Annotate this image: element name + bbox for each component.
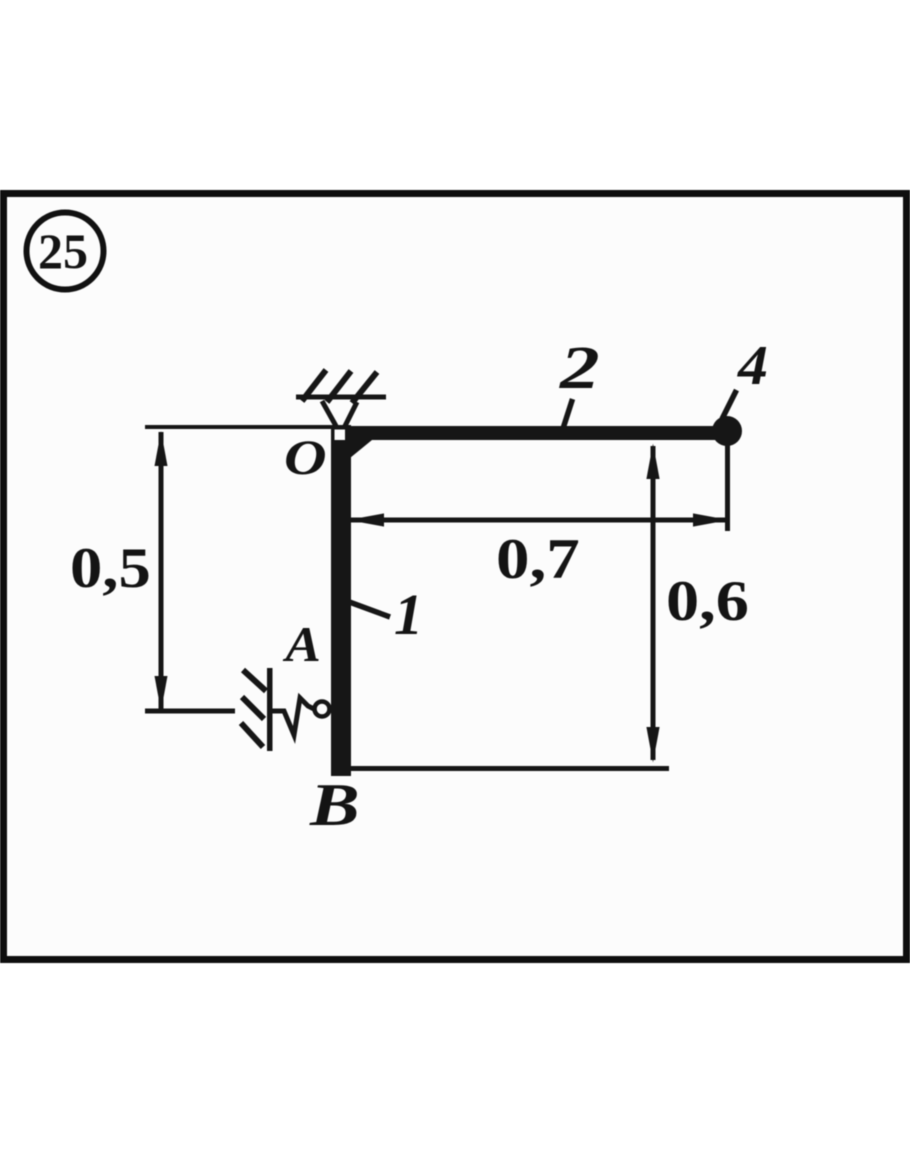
extension line below ball 4 — [725, 440, 730, 531]
ceiling hatch stroke 2 — [327, 371, 351, 402]
dimension 0,5 arrow down — [155, 676, 168, 711]
wall hatch stroke 2 — [242, 697, 264, 719]
ceiling hatch stroke 1 — [302, 370, 326, 401]
border frame — [4, 194, 907, 960]
svg-text:25: 25 — [38, 223, 88, 279]
dimension 0,5 extension line top — [145, 425, 337, 429]
dimension 0,7 arrow left — [348, 513, 384, 526]
pin square at O — [335, 430, 346, 441]
rod 2 (horizontal bar O-4) — [336, 426, 735, 440]
dimension 0,6 arrow up — [646, 444, 659, 480]
wall hatch stroke 1 — [243, 670, 266, 691]
dimension 0,7 line — [350, 518, 727, 523]
ball 4 at end of rod 2 — [712, 416, 742, 446]
dimension 0,6 line — [651, 446, 656, 760]
spring between wall and rod 1 — [272, 698, 314, 735]
problem number badge 25 — [27, 213, 104, 290]
dimension 0,5 extension line bottom — [145, 709, 235, 714]
bottom reference line from B — [350, 766, 669, 771]
dimension 0,7 arrow right — [693, 513, 729, 526]
svg-text:0,7: 0,7 — [496, 529, 580, 591]
rod 1 (vertical bar OB) — [331, 425, 351, 776]
ceiling hatch stroke 3 — [352, 372, 377, 403]
svg-text:0,6: 0,6 — [666, 570, 749, 633]
svg-text:B: B — [309, 772, 360, 839]
leader line for label 1 — [348, 602, 390, 618]
pin support triangle left leg — [322, 401, 336, 426]
svg-text:O: O — [284, 429, 327, 485]
leader line for label 2 — [564, 399, 573, 427]
pin support triangle right leg — [345, 402, 357, 426]
svg-text:4: 4 — [737, 334, 768, 397]
pin circle at A — [315, 702, 330, 717]
leader line for label 4 — [722, 390, 737, 419]
svg-text:A: A — [282, 617, 320, 672]
dimension 0,5 line — [159, 432, 164, 711]
wall hatch stroke 3 — [241, 723, 263, 747]
svg-text:0,5: 0,5 — [70, 537, 151, 600]
svg-text:1: 1 — [394, 582, 423, 647]
ceiling support hatch line — [296, 395, 386, 400]
corner fillet at O — [350, 440, 372, 458]
wall line at A — [267, 668, 273, 751]
dimension 0,6 arrow down — [646, 727, 659, 763]
svg-text:2: 2 — [559, 335, 600, 402]
dimension 0,5 arrow up — [155, 431, 168, 466]
